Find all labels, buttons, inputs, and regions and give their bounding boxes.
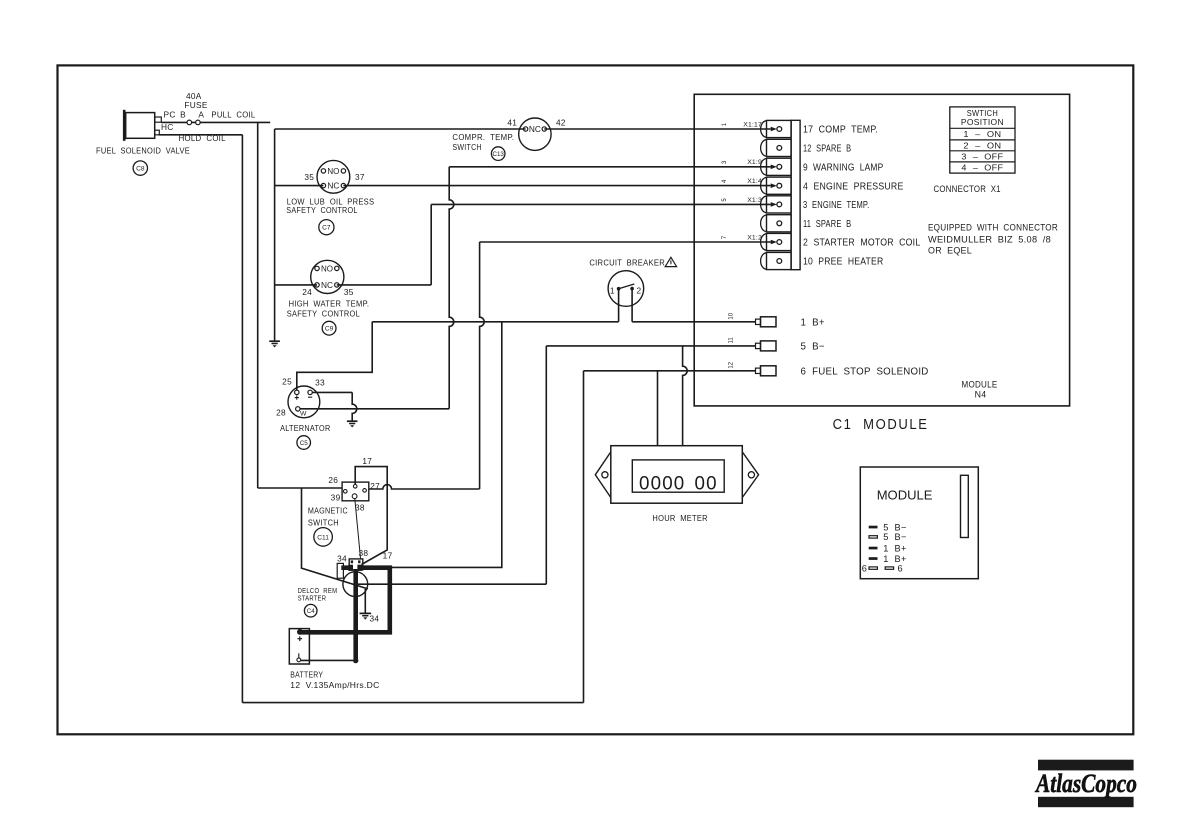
battery G1 box [289, 629, 309, 664]
wire 12 branch to hour meter [657, 371, 659, 446]
designator C8 [133, 161, 147, 175]
pin 17 (magnetic switch) [353, 485, 357, 489]
breaker blade [619, 284, 635, 289]
terminal label 17 [803, 125, 878, 136]
wire B- to starter [357, 583, 547, 585]
designator C11 [314, 528, 333, 547]
spade label 5 [801, 342, 825, 353]
module pin 5 B− [869, 522, 907, 532]
designator C4 [304, 604, 317, 617]
label SWITCH (C13) [452, 143, 481, 152]
wire compr temp switch to module X1:17 [544, 127, 777, 132]
label 12 V.135Amp/Hrs.DC [290, 680, 379, 690]
pin label 17 (starter) [383, 551, 393, 561]
svg-text:33: 33 [315, 378, 325, 388]
svg-text:X1:9: X1:9 [747, 159, 762, 166]
svg-text:ALTERNATOR: ALTERNATOR [280, 424, 330, 433]
pin label 38 [355, 503, 365, 513]
wire X1:3 to module [431, 202, 777, 207]
svg-text:12 V.135Amp/Hrs.DC: 12 V.135Amp/Hrs.DC [290, 680, 379, 690]
svg-text:34: 34 [337, 553, 347, 563]
net label X1:9 [747, 159, 762, 166]
wire number 3 rotated [722, 160, 728, 164]
wire hold coil drop [241, 135, 243, 703]
table title SWTICH POSITION [961, 108, 1004, 127]
label FUSE [184, 100, 207, 110]
wire C7 NC to module X1:4 [343, 183, 777, 188]
wire number 5 rotated [722, 198, 728, 202]
wire bus to C7 NC [275, 185, 324, 187]
wire 17 magnetic switch to starter stud [355, 467, 387, 565]
wire B+ breaker pin2 to module spade 10 [632, 321, 755, 323]
svg-text:NO: NO [327, 167, 339, 176]
designator C13 [491, 147, 505, 161]
svg-text:37: 37 [355, 172, 365, 182]
label NC (C13) [529, 125, 541, 134]
pin label 42 [556, 118, 566, 128]
svg-text:2 STARTER MOTOR COIL: 2 STARTER MOTOR COIL [803, 238, 920, 249]
C1 module box N4 [694, 94, 1069, 406]
wire pull coil drop to magnetic switch [258, 122, 342, 488]
svg-text:STARTER: STARTER [298, 593, 327, 602]
svg-text:AtlasCopco: AtlasCopco [1034, 769, 1137, 798]
svg-text:X1:17: X1:17 [743, 121, 762, 128]
svg-text:C4: C4 [307, 608, 315, 615]
pin label 41 [507, 118, 517, 128]
svg-text:HC: HC [161, 122, 174, 132]
wire number 11 rotated [728, 337, 734, 344]
Atlas Copco logo [1034, 760, 1137, 808]
wire 12 fuel stop solenoid line [584, 370, 756, 372]
pin label 26 [328, 475, 338, 485]
wire B+ from alternator riser to breaker pin1 [372, 321, 618, 323]
pin label 25 [282, 377, 292, 387]
svg-text:HIGH WATER TEMP.: HIGH WATER TEMP. [289, 300, 370, 309]
label CONNECTOR X1 [934, 184, 1001, 194]
label FUEL SOLENOID VALVE [96, 146, 190, 155]
wire warning lamp vertical (hops X1:3 and B+) [449, 167, 454, 409]
magnetic switch C11 box [342, 482, 369, 501]
module slot [961, 475, 969, 537]
svg-text:C7: C7 [322, 225, 331, 232]
solenoid contact marks [351, 560, 361, 563]
module N2 box [860, 467, 978, 579]
battery - terminal [297, 653, 301, 662]
wire B+ tap to starter cable [389, 322, 502, 568]
solenoid stud 34 [348, 565, 353, 571]
warning triangle [665, 257, 676, 266]
svg-text:HOUR METER: HOUR METER [652, 513, 708, 523]
high water temp switch C9 [311, 260, 344, 293]
note WEIDMULLER BIZ 5.08 /8 [928, 235, 1051, 245]
table row 4 - OFF [961, 162, 1003, 172]
svg-text:WEIDMULLER BIZ 5.08 /8: WEIDMULLER BIZ 5.08 /8 [928, 235, 1051, 245]
module pin 6-6 [862, 564, 903, 574]
note EQUIPPED WITH CONNECTOR [928, 223, 1058, 233]
wire B- line to module spade 11 [546, 345, 755, 347]
label W (alternator) [300, 411, 307, 418]
svg-text:11 SPARE B: 11 SPARE B [803, 219, 851, 230]
svg-text:3 – OFF: 3 – OFF [961, 151, 1003, 161]
svg-text:5 B−: 5 B− [883, 522, 906, 532]
svg-text:35: 35 [344, 287, 354, 297]
svg-text:27: 27 [370, 481, 380, 491]
svg-text:24: 24 [302, 287, 312, 297]
svg-text:PC: PC [164, 110, 176, 120]
wire X1:2 to magnetic switch pin27 (hops wire17) [369, 485, 480, 489]
svg-text:X1:3: X1:3 [747, 197, 762, 204]
wire 39 polygon to starter [302, 488, 368, 589]
pin label 35 (C7) [304, 172, 314, 182]
note OR EQEL [928, 246, 972, 256]
svg-text:1 B+: 1 B+ [883, 543, 906, 553]
alternator + mark [295, 396, 299, 400]
label CIRCUIT BREAKER [589, 258, 665, 268]
terminal label 12 [803, 144, 851, 155]
battery + terminal dot [297, 629, 303, 635]
wire number 12 rotated [728, 361, 734, 368]
breaker contact 1 [617, 287, 621, 291]
label MAGNETIC [308, 507, 348, 516]
svg-text:C1 MODULE: C1 MODULE [833, 417, 929, 433]
table row 1 - ON [963, 129, 1001, 139]
pin label 34 (starter ground) [369, 614, 379, 624]
hour meter right ear [742, 452, 758, 498]
pin label 39 [331, 492, 341, 502]
terminal label 11 [803, 219, 851, 230]
net label X1:3 [747, 197, 762, 204]
wire ground bus vertical [274, 129, 276, 341]
net label X1:2 [747, 234, 762, 241]
svg-text:42: 42 [556, 118, 566, 128]
wire bus to C9 NC [275, 284, 317, 286]
thick wire solenoid down to battery - link [353, 569, 358, 663]
label PULL COIL [211, 111, 255, 120]
svg-text:MODULE: MODULE [877, 487, 933, 502]
wire C9 NC right to riser [337, 284, 431, 286]
module spade terminal 11 [756, 341, 777, 351]
label STARTER [298, 593, 327, 602]
svg-text:9 WARNING LAMP: 9 WARNING LAMP [803, 163, 883, 174]
svg-text:0000 00: 0000 00 [639, 472, 718, 494]
svg-text:EQUIPPED WITH CONNECTOR: EQUIPPED WITH CONNECTOR [928, 223, 1058, 233]
label HOLD COIL [179, 134, 226, 143]
breaker contact 2 [630, 287, 634, 291]
ground symbol (bus) [269, 341, 280, 347]
svg-text:1 – ON: 1 – ON [963, 129, 1001, 139]
low lub oil press switch C7 [317, 160, 350, 193]
pin label 37 (C7) [355, 172, 365, 182]
pin 26 (magnetic switch) [344, 490, 348, 494]
pin label 27 [370, 481, 380, 491]
designator C9 [322, 321, 336, 335]
svg-text:5 B−: 5 B− [801, 342, 825, 353]
label NO (C9) [321, 264, 333, 273]
svg-text:4 ENGINE PRESSURE: 4 ENGINE PRESSURE [803, 181, 904, 192]
svg-text:MAGNETIC: MAGNETIC [308, 507, 348, 516]
label ALTERNATOR [280, 424, 330, 433]
label NC (C9) [321, 281, 333, 290]
title C1 MODULE [833, 417, 929, 433]
fuel solenoid valve C8 body [123, 110, 161, 141]
svg-text:NC: NC [529, 125, 541, 134]
terminal label 2 [803, 238, 920, 249]
wire X1:9 horizontal to module [449, 165, 777, 170]
hour meter display [632, 460, 724, 492]
solenoid stud 38 [357, 565, 362, 571]
spade label 1 [801, 318, 825, 329]
svg-text:CONNECTOR X1: CONNECTOR X1 [934, 184, 1001, 194]
label B [180, 110, 186, 120]
starter center junction [354, 582, 357, 585]
label NO (C7) [327, 167, 339, 176]
spade label 6 [801, 367, 929, 378]
label HIGH WATER TEMP. [289, 300, 370, 309]
label NC (C7) [327, 182, 339, 191]
alternator - mark [308, 396, 312, 398]
designator C5 [297, 436, 311, 450]
svg-text:17: 17 [362, 456, 372, 466]
svg-text:W: W [300, 411, 307, 418]
pin 38 (magnetic switch) [352, 494, 357, 499]
pin label 28 [276, 407, 286, 417]
svg-text:SWITCH: SWITCH [308, 518, 339, 527]
svg-text:6: 6 [898, 564, 903, 574]
svg-text:11: 11 [728, 337, 734, 344]
svg-text:2: 2 [636, 285, 641, 295]
wire number 1 rotated [722, 122, 728, 126]
starter motor C4 body [343, 572, 368, 597]
wire starter ground stub [364, 589, 366, 613]
svg-text:OR EQEL: OR EQEL [928, 246, 972, 256]
svg-text:4 – OFF: 4 – OFF [961, 162, 1003, 172]
svg-text:38: 38 [358, 548, 368, 558]
wire pull coil [161, 121, 270, 123]
pin label 2 (breaker) [636, 285, 641, 295]
breaker stub 2 [631, 290, 633, 322]
breaker stub 1 [618, 290, 620, 322]
switch position table frame [950, 107, 1015, 173]
label SAFETY CONTROL (C7) [286, 206, 358, 215]
svg-text:FUEL SOLENOID VALVE: FUEL SOLENOID VALVE [96, 146, 190, 155]
label SWITCH (C11) [308, 518, 339, 527]
net label X1:4 [747, 178, 762, 185]
terminal label 10 [803, 257, 883, 268]
svg-text:17 COMP TEMP.: 17 COMP TEMP. [803, 125, 878, 136]
svg-text:A: A [198, 110, 204, 120]
module pin 1 B+ [869, 543, 907, 553]
wire alternator 33 to ground (hops W wire) [312, 392, 357, 420]
svg-text:12 SPARE B: 12 SPARE B [803, 144, 851, 155]
pin label 1 (breaker) [610, 285, 615, 295]
thick wire starter to battery + [301, 568, 390, 633]
wire alternator W to warning lamp riser [300, 408, 449, 410]
svg-text:X1:2: X1:2 [747, 234, 762, 241]
wire alternator 25 to B+ [297, 322, 372, 390]
ground symbol (starter) [360, 613, 372, 619]
battery + mark [298, 636, 303, 641]
svg-text:34: 34 [369, 614, 379, 624]
label MODULE (N2) [877, 487, 933, 502]
svg-text:3 ENGINE TEMP.: 3 ENGINE TEMP. [803, 200, 869, 211]
label 40A [186, 91, 202, 101]
module spade terminal 12 [756, 366, 777, 376]
svg-text:25: 25 [282, 377, 292, 387]
svg-text:39: 39 [331, 492, 341, 502]
svg-text:26: 26 [328, 475, 338, 485]
wire number 4 rotated [722, 179, 728, 183]
wire riser to fuel stop solenoid line [583, 371, 585, 703]
label LOW LUB OIL PRESS [287, 198, 375, 207]
connector X1 terminal block [761, 120, 801, 269]
module pin 1 B+ [869, 554, 907, 564]
table row 2 - ON [963, 140, 1001, 150]
svg-text:6: 6 [862, 564, 867, 574]
svg-text:1: 1 [610, 285, 615, 295]
svg-text:28: 28 [276, 407, 286, 417]
fuse F1 40A [187, 120, 200, 125]
label COMPR. TEMP. [452, 133, 514, 142]
ground symbol (alternator) [347, 421, 358, 427]
svg-text:X1:4: X1:4 [747, 178, 762, 185]
pin label 24 [302, 287, 312, 297]
svg-text:1 B+: 1 B+ [801, 318, 825, 329]
wire number 7 rotated [722, 235, 728, 239]
pin label 35 (C9) [344, 287, 354, 297]
wire B- vertical left [545, 346, 547, 584]
pin label 17 (magnetic switch) [362, 456, 372, 466]
label HC [161, 122, 174, 132]
label SAFETY CONTROL (C9) [287, 310, 360, 319]
wire X1:17 from bus to compr temp switch [275, 128, 526, 130]
wire X1:2 to module [480, 240, 777, 245]
label DELCO REM [298, 586, 338, 595]
label A [198, 110, 204, 120]
svg-text:10: 10 [728, 312, 734, 319]
alternator C5 [288, 386, 320, 418]
svg-text:POSITION: POSITION [961, 117, 1004, 127]
thick wire stub left of stud [341, 565, 349, 570]
terminal label 9 [803, 163, 883, 174]
wire 38 link to starter solenoid [355, 499, 361, 560]
svg-text:35: 35 [304, 172, 314, 182]
svg-text:10 PREE HEATER: 10 PREE HEATER [803, 257, 883, 268]
pin label 34 (solenoid) [337, 553, 347, 563]
label HOUR METER [652, 513, 708, 523]
wire B- branch to hour meter (hops line12) [683, 346, 688, 446]
svg-text:NC: NC [327, 182, 339, 191]
module spade terminal 10 [756, 317, 777, 327]
terminal label 4 [803, 181, 904, 192]
svg-text:C11: C11 [317, 534, 329, 541]
label PC [164, 110, 176, 120]
solenoid terminal bracket [337, 563, 343, 578]
label MODULE N4 [962, 380, 998, 400]
wire riser to X1:3 line [430, 204, 432, 285]
svg-text:BATTERY: BATTERY [290, 670, 323, 680]
svg-text:MODULE: MODULE [962, 380, 998, 390]
terminal label 3 [803, 200, 869, 211]
svg-text:C9: C9 [325, 326, 334, 333]
wire battery - to starter thick wire [301, 659, 353, 661]
svg-text:COMPR. TEMP.: COMPR. TEMP. [452, 133, 514, 142]
wire bottom loop [242, 702, 583, 704]
wire number 10 rotated [728, 312, 734, 319]
svg-text:SAFETY CONTROL: SAFETY CONTROL [286, 206, 358, 215]
hour meter left ear [595, 452, 611, 498]
svg-text:2 – ON: 2 – ON [963, 140, 1001, 150]
svg-text:C13: C13 [493, 151, 505, 158]
svg-text:PULL COIL: PULL COIL [211, 111, 255, 120]
starter solenoid box [349, 559, 363, 570]
svg-text:SAFETY CONTROL: SAFETY CONTROL [287, 310, 360, 319]
table row 3 - OFF [961, 151, 1003, 161]
border frame [58, 65, 1134, 734]
svg-text:41: 41 [507, 118, 517, 128]
label BATTERY [290, 670, 323, 680]
svg-text:NC: NC [321, 281, 333, 290]
wire X1:2 vertical (hops B+) [480, 242, 485, 489]
svg-text:B: B [180, 110, 186, 120]
pin 27 (magnetic switch) [363, 489, 367, 493]
svg-text:6 FUEL STOP SOLENOID: 6 FUEL STOP SOLENOID [801, 367, 929, 378]
hour meter digits 0000 00 [639, 472, 718, 494]
hour meter P1 body [611, 446, 743, 504]
designator C7 [319, 220, 334, 235]
svg-text:CIRCUIT BREAKER: CIRCUIT BREAKER [589, 258, 665, 268]
module pin 5 B− [869, 532, 907, 542]
net label X1:17 [743, 121, 762, 128]
svg-text:5 B−: 5 B− [883, 532, 906, 542]
svg-text:17: 17 [383, 551, 393, 561]
svg-text:NO: NO [321, 264, 333, 273]
svg-text:1 B+: 1 B+ [883, 554, 906, 564]
svg-text:12: 12 [728, 361, 734, 368]
svg-text:FUSE: FUSE [184, 100, 207, 110]
pin label 38 (starter) [358, 548, 368, 558]
compr temp switch C13 [519, 118, 551, 150]
svg-text:C5: C5 [300, 440, 308, 447]
wire hold coil [159, 134, 243, 136]
svg-text:SWITCH: SWITCH [452, 143, 481, 152]
svg-text:N4: N4 [975, 390, 987, 400]
pin label 33 [315, 378, 325, 388]
circuit breaker CB1 [608, 271, 644, 307]
svg-text:C8: C8 [136, 166, 145, 173]
